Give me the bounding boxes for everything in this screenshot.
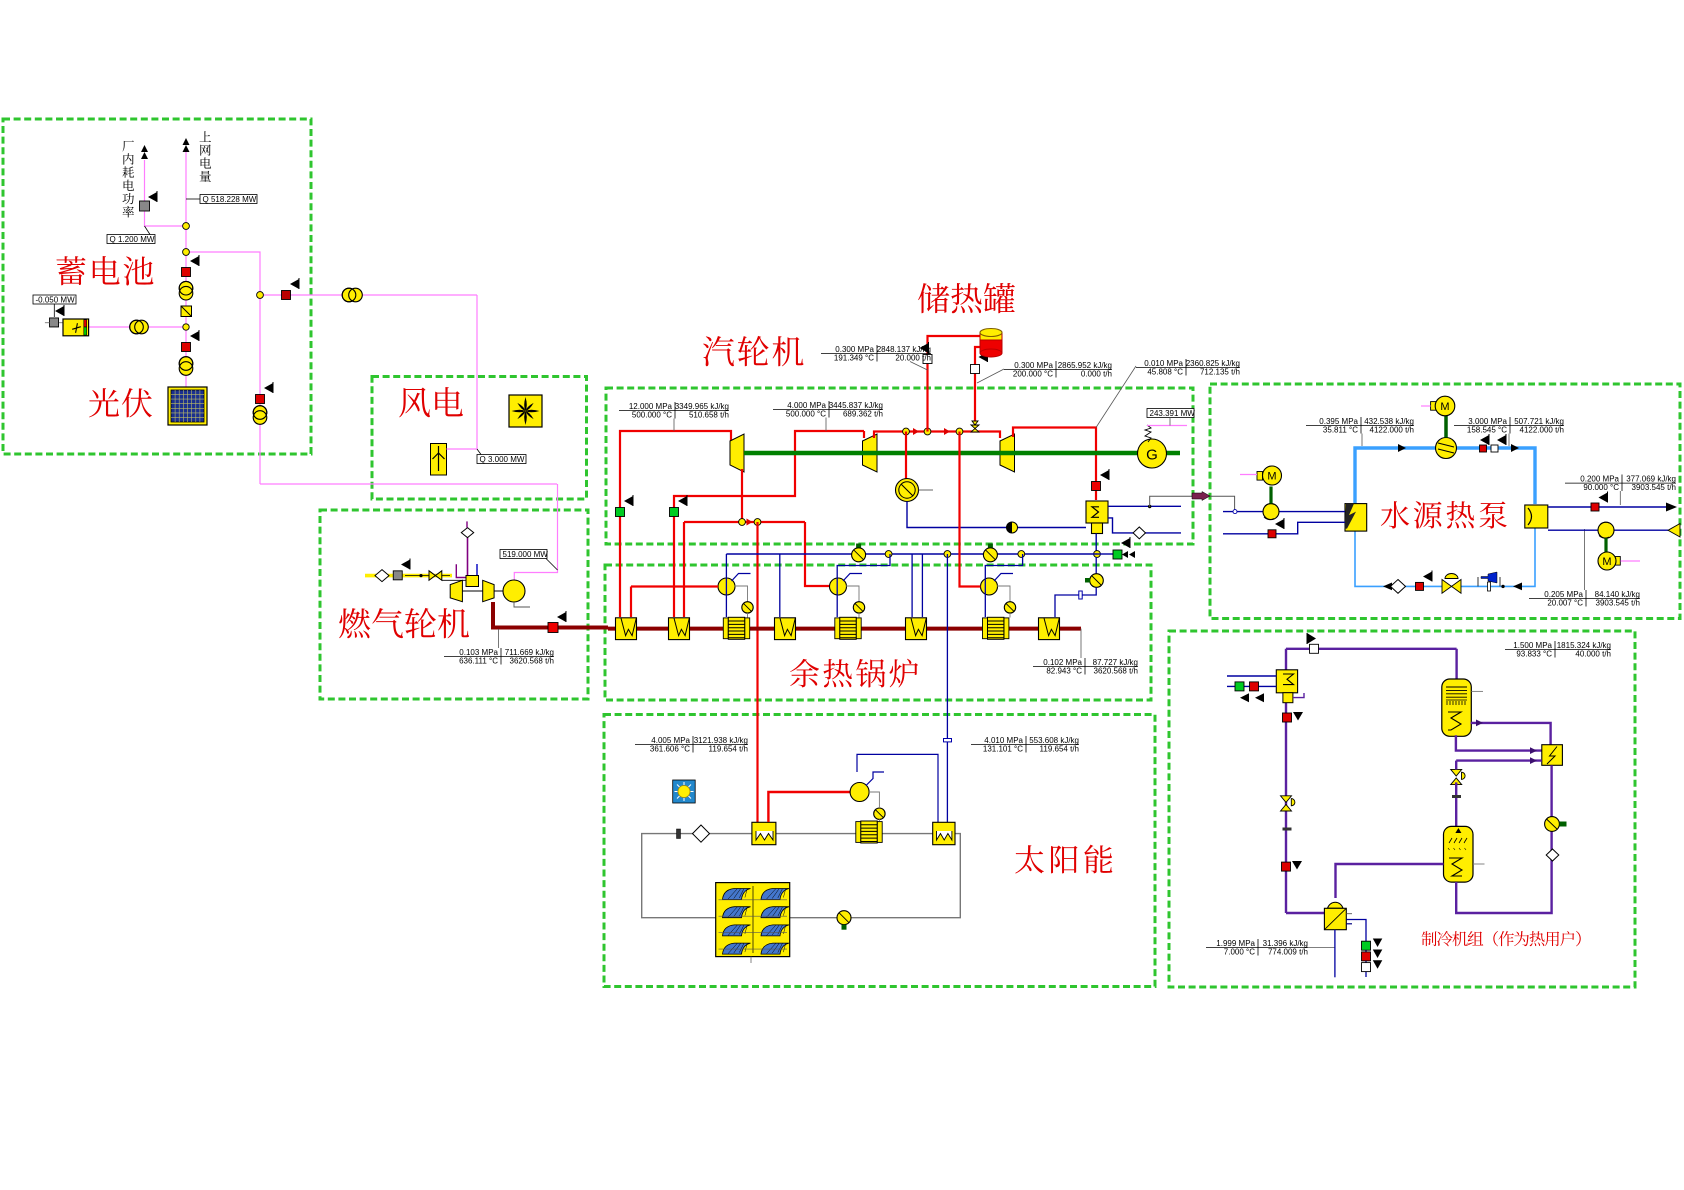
GT shaft xyxy=(462,590,482,592)
label 余热锅炉 xyxy=(790,659,819,688)
meter line xyxy=(977,369,1004,383)
wire hot out (navy) xyxy=(1548,506,1666,508)
HRSG ECO2 xyxy=(835,617,861,639)
absorber stub xyxy=(1473,863,1485,865)
svg-text:500.000 °C: 500.000 °C xyxy=(786,410,826,419)
small pump xyxy=(874,808,885,819)
svg-text:636.111 °C: 636.111 °C xyxy=(459,657,498,666)
wire gen power (pink) xyxy=(1147,425,1187,427)
svg-text:82.943 °C: 82.943 °C xyxy=(1046,667,1082,676)
fuel dot xyxy=(419,574,422,577)
drum D3 xyxy=(981,578,998,595)
HRSG RH1 xyxy=(669,618,690,640)
node X2 xyxy=(924,428,931,435)
breaker hp2 xyxy=(1491,445,1498,452)
HTF mid1 (gray) xyxy=(776,833,857,835)
svg-text:Q 518.228 MW: Q 518.228 MW xyxy=(203,195,257,204)
meter table hot-reheat xyxy=(773,401,883,419)
meter 519MW xyxy=(500,550,548,559)
wire IP-LP crossover (red) xyxy=(874,432,1000,439)
generator G xyxy=(1138,439,1167,468)
wire battery link (pink) xyxy=(88,326,186,328)
meter Q518 xyxy=(200,195,257,204)
node X1 xyxy=(903,428,910,435)
wire aux-power (pink) xyxy=(145,160,187,226)
wire gray to HP (w/ arrow) xyxy=(1150,496,1192,507)
arrow b1 xyxy=(1398,444,1406,452)
meter -0.050 xyxy=(33,295,76,304)
solar recirc pump xyxy=(850,783,869,802)
motor M3 xyxy=(1615,557,1621,566)
node circle xyxy=(1233,510,1237,514)
meter 243MW xyxy=(1147,409,1195,418)
wire CW (navy) xyxy=(907,502,1086,528)
GT exhaust duct xyxy=(493,602,608,628)
drum-pump link xyxy=(846,586,859,602)
breaker hp1 xyxy=(1480,445,1487,452)
wire CRH to HRSG a (red) xyxy=(683,522,685,617)
throttle valve ch-left xyxy=(1281,796,1292,811)
label 汽轮机 xyxy=(703,336,734,366)
meter Q1.2 xyxy=(107,235,155,244)
transformer T2 xyxy=(179,357,193,371)
evaporator xyxy=(1345,504,1367,531)
wire HP exhaust (red) xyxy=(741,469,743,522)
valve-status G3 xyxy=(1097,553,1113,555)
field drain tick xyxy=(750,957,752,963)
breaker ch1 xyxy=(1283,713,1292,722)
orifice ch-left xyxy=(1283,828,1292,831)
transformer T4 xyxy=(253,406,267,420)
motor M2 xyxy=(1257,472,1263,481)
wire grid-export (pink) xyxy=(185,152,187,387)
transformer T3 (battery) xyxy=(130,320,144,334)
svg-text:119.654 t/h: 119.654 t/h xyxy=(1040,745,1079,754)
motor M1 xyxy=(1431,402,1437,411)
throttle valve ch-mid xyxy=(1451,769,1462,784)
battery cell xyxy=(63,319,89,336)
wire pink M2 xyxy=(1240,474,1257,476)
wire to wind/grid bus (pink) xyxy=(186,252,477,295)
wire pink bus across xyxy=(260,483,557,485)
GT turbine xyxy=(483,580,494,601)
valve-status ch-g xyxy=(1235,682,1244,691)
sun icon xyxy=(673,780,696,803)
valve-status G2 xyxy=(670,508,679,517)
svg-text:20.000 t/h: 20.000 t/h xyxy=(895,354,931,363)
meter table stack xyxy=(1033,658,1138,676)
HTF orifice xyxy=(677,829,681,839)
wire pump tap (navy) xyxy=(1346,920,1366,978)
solar ECO xyxy=(856,821,882,843)
fuel filter diamond xyxy=(375,570,389,582)
CW valve half xyxy=(1007,522,1018,533)
wire condensate header (navy) xyxy=(726,553,1097,555)
wire solar economizer (navy) xyxy=(857,754,938,822)
orifice solar feed xyxy=(944,739,952,742)
LP turbine xyxy=(1000,434,1015,472)
svg-text:361.606 °C: 361.606 °C xyxy=(650,745,690,754)
wire gen-HX2 vapor (purple) xyxy=(1471,723,1551,745)
wire IP inlet tick xyxy=(863,431,865,438)
solar HX steamgen xyxy=(752,822,776,844)
label 水源热泵 xyxy=(1381,501,1409,528)
wire pink gen link xyxy=(514,484,557,580)
label 太阳能 xyxy=(1015,845,1044,873)
meter line xyxy=(145,226,151,235)
pump drop xyxy=(858,613,860,617)
meter line xyxy=(186,198,200,200)
GT gen ground xyxy=(514,602,530,607)
transformer T1 xyxy=(179,281,193,295)
absorber vessel xyxy=(1444,826,1474,882)
drain diamond xyxy=(1133,527,1145,539)
water pump WP1 xyxy=(1263,504,1279,520)
circ pump P2 xyxy=(853,602,864,613)
stack line purple xyxy=(467,538,469,576)
breaker hp5 xyxy=(1416,582,1424,590)
arrow out top2 xyxy=(183,138,190,152)
junction dot xyxy=(1501,585,1504,588)
svg-text:90.000 °C: 90.000 °C xyxy=(1583,483,1619,492)
label 燃气轮机 xyxy=(339,608,370,638)
label 制冷机组 xyxy=(1422,931,1437,946)
meter table hp2 xyxy=(1454,417,1564,435)
circ pump P1 xyxy=(742,602,753,613)
meter line xyxy=(825,418,827,432)
svg-text:191.349 °C: 191.349 °C xyxy=(834,354,874,363)
wire tank discharge (red) xyxy=(975,347,981,426)
PV panel xyxy=(168,387,207,425)
IP turbine xyxy=(863,434,878,472)
meter table GT-exhaust xyxy=(444,648,554,666)
svg-text:3620.568 t/h: 3620.568 t/h xyxy=(510,657,554,666)
meter line xyxy=(546,559,558,571)
svg-text:M: M xyxy=(1602,556,1611,568)
refrigerant loop top (blue) xyxy=(1355,448,1436,503)
solution HX xyxy=(1542,745,1563,766)
arrows left pair xyxy=(1122,551,1135,558)
drum D2 xyxy=(830,578,847,595)
node J2 xyxy=(183,249,190,256)
wire drum2 steam (red) xyxy=(805,522,830,586)
label 蓄电池 xyxy=(56,256,85,285)
wire ch left (purple) xyxy=(1285,649,1287,913)
HX heat-user xyxy=(1276,670,1297,703)
svg-text:510.658 t/h: 510.658 t/h xyxy=(689,411,729,420)
section heat-pump boundary xyxy=(1210,384,1680,619)
breaker S4 (bus) xyxy=(282,291,291,300)
arrow steam r1 xyxy=(913,428,919,435)
meter table hp4 xyxy=(1529,590,1640,608)
drum-pump link xyxy=(997,586,1010,602)
svg-text:689.362 t/h: 689.362 t/h xyxy=(843,410,883,419)
wire solar feed (navy) xyxy=(946,554,948,822)
svg-text:7.000 °C: 7.000 °C xyxy=(1224,948,1255,957)
meter table hp1 xyxy=(1306,417,1414,435)
meter rule ext xyxy=(1308,947,1335,949)
wire reheat out (red) xyxy=(674,431,864,617)
svg-text:119.654 t/h: 119.654 t/h xyxy=(709,745,748,754)
svg-text:519.000 MW: 519.000 MW xyxy=(503,550,549,559)
wire CRH header (red) xyxy=(684,521,805,523)
arrow steam r2 xyxy=(944,428,950,435)
node H3 xyxy=(1018,551,1025,558)
tap eva2 xyxy=(911,554,913,617)
svg-text:4122.000 t/h: 4122.000 t/h xyxy=(1520,426,1564,435)
wire cond extraction (red) xyxy=(905,432,907,480)
meter line xyxy=(53,304,55,317)
compressor xyxy=(1436,438,1457,459)
wire solar steam out (red) xyxy=(768,792,850,822)
wire HX2-absorber (purple) xyxy=(1456,765,1551,913)
pump drop xyxy=(1009,613,1011,617)
svg-text:500.000 °C: 500.000 °C xyxy=(632,411,672,420)
HTF mid2 (gray) xyxy=(881,833,933,835)
HTF loop right (gray) xyxy=(790,834,961,918)
breaker hp3 xyxy=(1268,530,1276,538)
svg-text:200.000 °C: 200.000 °C xyxy=(1013,370,1053,379)
chiller pump CP xyxy=(1545,817,1560,832)
diamond ch xyxy=(1546,849,1559,861)
valve-status W2 xyxy=(971,365,980,374)
arrow b2 xyxy=(1511,444,1519,452)
breaker hp4 xyxy=(1591,503,1599,511)
CW pump xyxy=(896,479,919,502)
section gas-turbine boundary xyxy=(320,510,588,699)
wire cond out right (navy) xyxy=(1108,505,1181,507)
solution pump xyxy=(1324,902,1352,929)
status g xyxy=(1362,941,1371,950)
wire user return (navy) xyxy=(1227,685,1276,687)
wire water in2 (navy) xyxy=(1223,522,1345,534)
PRV valve xyxy=(971,425,979,432)
valve-status G1 xyxy=(616,508,625,517)
svg-text:3620.568 t/h: 3620.568 t/h xyxy=(1094,667,1138,676)
meter table tank-out xyxy=(1004,361,1112,379)
WP1 shaft xyxy=(1269,487,1272,504)
wire tank charge (red) xyxy=(928,336,981,432)
circ pump P3 xyxy=(1004,602,1015,613)
vertical label 厂内耗电功率 xyxy=(123,140,134,151)
tap eco2 xyxy=(837,554,890,617)
fuel valve xyxy=(429,571,442,581)
wire ch top (purple) xyxy=(1286,648,1457,650)
breaker S2 xyxy=(182,343,191,352)
meter line xyxy=(1096,366,1136,428)
meter line xyxy=(1169,418,1171,426)
wind turbine WT1 xyxy=(431,444,447,476)
svg-text:243.391 MW: 243.391 MW xyxy=(1150,409,1196,418)
gen excitation zigzag xyxy=(1145,425,1151,442)
svg-text:35.811 °C: 35.811 °C xyxy=(1323,426,1358,435)
wire gen top (purple) xyxy=(1455,649,1457,679)
filter diamond hp xyxy=(1391,580,1406,594)
HRSG EVA1 xyxy=(775,618,796,640)
turbine shaft (green) xyxy=(744,451,1138,456)
wire drum1 steam (red) xyxy=(631,585,718,587)
solar feed HX (W box) xyxy=(933,822,955,844)
svg-text:712.135 t/h: 712.135 t/h xyxy=(1200,368,1240,377)
section PV-battery boundary xyxy=(3,119,311,454)
orifice xyxy=(1079,591,1082,599)
meter table tank-in xyxy=(821,345,931,363)
storage tank 储热罐 xyxy=(980,329,1002,358)
GT combustor xyxy=(466,576,479,587)
wire condensate down xyxy=(1095,534,1097,552)
meter lines xyxy=(1361,434,1363,447)
wire absorber top (purple) xyxy=(1455,761,1457,770)
valve-status R1 xyxy=(1092,482,1101,491)
wire drain (navy) xyxy=(1108,518,1181,533)
inverter xyxy=(181,306,192,317)
meter table hp3 xyxy=(1565,475,1676,493)
expansion valve xyxy=(1442,580,1461,594)
HP turbine xyxy=(730,434,744,472)
shaft right stub xyxy=(1166,451,1180,456)
svg-text:-0.050 MW: -0.050 MW xyxy=(36,295,76,304)
meter line xyxy=(477,449,481,455)
section wind boundary xyxy=(372,377,587,500)
node H1 xyxy=(885,551,892,558)
HRSG ECO1 xyxy=(723,617,749,639)
node CRH1 xyxy=(739,519,746,526)
HRSG ECO3 xyxy=(983,617,1009,639)
meter table ch1 xyxy=(1505,641,1611,659)
fuel line (yellow) xyxy=(365,574,452,578)
label 风电 xyxy=(399,388,430,418)
meter line xyxy=(910,362,928,371)
wind rose icon xyxy=(509,395,542,427)
breaker ch3 xyxy=(1250,682,1259,691)
feed pump FP1 xyxy=(852,548,866,562)
gray links xyxy=(869,792,879,808)
wire pump out (navy) xyxy=(1334,930,1336,978)
fuel transducer xyxy=(393,571,402,580)
svg-text:774.009 t/h: 774.009 t/h xyxy=(1268,948,1308,957)
generator vessel xyxy=(1442,679,1472,736)
wire extraction to solar (red) xyxy=(756,522,758,823)
drum-pump link xyxy=(735,586,748,602)
svg-text:4122.000 t/h: 4122.000 t/h xyxy=(1370,426,1414,435)
pump drop xyxy=(747,613,749,617)
meter table ch2 xyxy=(1206,939,1308,957)
feed pump FP2 xyxy=(983,548,997,562)
tap eco3 xyxy=(985,554,1022,617)
arrow bl2 xyxy=(1513,583,1522,591)
svg-text:20.007 °C: 20.007 °C xyxy=(1547,599,1583,608)
breaker ch2 xyxy=(1282,862,1291,871)
tap eco1 xyxy=(725,554,727,617)
svg-text:40.000 t/h: 40.000 t/h xyxy=(1575,650,1611,659)
label 光伏 xyxy=(89,388,119,417)
vertical label 上网电量 xyxy=(200,131,211,142)
wire pink M3 xyxy=(1621,560,1641,562)
drum hook xyxy=(843,574,862,582)
section chiller boundary xyxy=(1169,631,1635,987)
combustor air line purple xyxy=(456,564,466,577)
GT gen shaft xyxy=(494,590,504,592)
stub xyxy=(919,489,934,491)
arrow out xyxy=(1666,503,1677,512)
valve-status ch-top xyxy=(1310,644,1319,653)
section solar boundary xyxy=(604,715,1155,987)
drum hook xyxy=(994,574,1013,582)
HRSG EVA3 xyxy=(1039,618,1060,640)
wire ch bottom-left (purple) xyxy=(1286,912,1325,914)
transducer gray xyxy=(140,201,150,211)
valve-status W1 xyxy=(923,355,932,364)
node H2 xyxy=(944,551,951,558)
meter table solar-steam xyxy=(635,736,748,754)
wire CEP discharge xyxy=(1055,587,1096,617)
flue gas duct (dark red) xyxy=(608,627,1081,631)
wire drum3 feed (red) xyxy=(960,432,981,587)
status r xyxy=(1362,952,1371,961)
HTF filter diamond xyxy=(693,825,710,842)
orifice ch-mid xyxy=(1452,795,1461,798)
meter table LP-exhaust xyxy=(1136,359,1240,377)
svg-text:0.000 t/h: 0.000 t/h xyxy=(1081,370,1112,379)
node CRH2 xyxy=(754,519,761,526)
junction dot xyxy=(1148,505,1151,508)
HRSG SH1 xyxy=(616,618,637,640)
refrigerant return (blue) xyxy=(1355,529,1535,587)
svg-text:158.545 °C: 158.545 °C xyxy=(1467,426,1507,435)
wire pink M1 xyxy=(1421,405,1431,407)
breaker S1 xyxy=(182,268,191,277)
meter table main-steam xyxy=(619,402,729,420)
water pump WP2 xyxy=(1598,522,1614,538)
wire wind to bus (pink) xyxy=(447,295,478,449)
breaker S3 xyxy=(256,395,265,404)
drum hook xyxy=(732,574,751,582)
svg-text:G: G xyxy=(1146,447,1158,464)
svg-text:45.808 °C: 45.808 °C xyxy=(1147,368,1183,377)
node J4 xyxy=(257,292,264,299)
tap eva1 xyxy=(779,554,781,617)
wire LP exhaust (red) xyxy=(1013,428,1096,501)
svg-text:Q 1.200 MW: Q 1.200 MW xyxy=(110,235,155,244)
meter line xyxy=(1080,629,1082,658)
wire gray battery stub xyxy=(45,322,50,324)
combustor purge line blue xyxy=(476,564,478,576)
label 储热罐 xyxy=(918,283,949,313)
stack diamond xyxy=(461,528,473,538)
meter line xyxy=(498,629,500,648)
condenser xyxy=(1086,501,1108,534)
wire main steam (red) xyxy=(620,431,731,617)
WP2 shaft xyxy=(1604,538,1607,552)
GT compressor xyxy=(450,580,462,601)
gen stub xyxy=(1471,690,1483,692)
node J1 xyxy=(183,223,190,230)
svg-text:M: M xyxy=(1267,471,1276,483)
svg-text:Q 3.000 MW: Q 3.000 MW xyxy=(480,455,525,464)
compressor shaft xyxy=(1444,416,1448,438)
transducer gray battery xyxy=(50,318,59,327)
wire strong solution (purple) xyxy=(1336,864,1444,898)
flow device xyxy=(1481,572,1497,583)
condensate pump CEP xyxy=(1095,557,1097,574)
svg-text:3903.545 t/h: 3903.545 t/h xyxy=(1596,599,1640,608)
wire user supply (navy) xyxy=(1227,675,1276,677)
meter Q3.000 xyxy=(477,455,526,464)
svg-text:131.101 °C: 131.101 °C xyxy=(983,745,1023,754)
HX hook xyxy=(1293,693,1304,698)
svg-text:M: M xyxy=(1440,401,1449,413)
solar collector field xyxy=(716,883,790,957)
